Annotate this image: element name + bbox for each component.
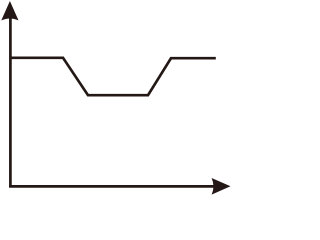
x-axis arrowhead	[212, 178, 231, 195]
y-axis	[9, 16, 12, 186]
y-axis arrowhead	[1, 1, 18, 20]
x-axis	[9, 185, 214, 188]
curve	[10, 58, 215, 95]
